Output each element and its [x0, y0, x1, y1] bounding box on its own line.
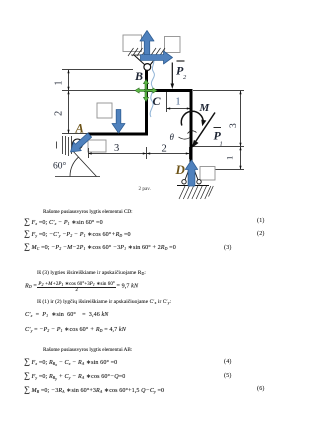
svg-text:A: A — [75, 122, 84, 136]
svg-text:θ: θ — [170, 132, 175, 142]
svg-text:1: 1 — [176, 97, 181, 108]
svg-text:3: 3 — [114, 143, 119, 154]
svg-text:2 pav.: 2 pav. — [139, 186, 151, 192]
svg-text:2: 2 — [183, 74, 187, 81]
svg-text:2: 2 — [54, 111, 65, 116]
svg-text:M: M — [199, 102, 211, 114]
svg-text:B: B — [134, 69, 143, 83]
svg-text:1: 1 — [225, 156, 235, 160]
svg-text:60°: 60° — [53, 161, 67, 172]
svg-text:C: C — [153, 94, 162, 108]
svg-text:3: 3 — [229, 123, 239, 128]
svg-text:2: 2 — [162, 144, 167, 155]
svg-text:1: 1 — [54, 81, 65, 86]
svg-text:1: 1 — [220, 141, 223, 148]
svg-text:D: D — [175, 162, 186, 177]
